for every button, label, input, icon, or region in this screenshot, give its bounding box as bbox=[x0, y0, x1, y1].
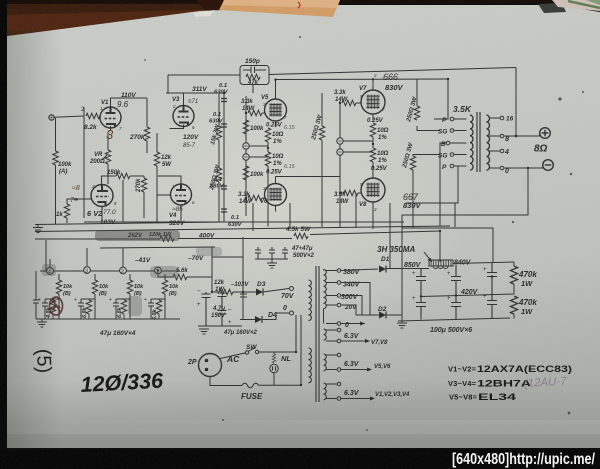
wire left outer vertical bbox=[83, 107, 85, 218]
resistor 250ohm 3W left bbox=[209, 163, 222, 222]
svg-text:470k: 470k bbox=[518, 270, 537, 279]
tube V3 bbox=[172, 97, 194, 127]
capacitor 0.1 630V no.3 bbox=[210, 177, 227, 190]
wire psu ground vertical bbox=[401, 226, 403, 321]
svg-text:0.25V: 0.25V bbox=[266, 170, 283, 176]
svg-text:500V×2: 500V×2 bbox=[293, 253, 315, 259]
heater winding 2 bbox=[324, 354, 327, 371]
svg-text:10Ω: 10Ω bbox=[272, 154, 284, 160]
capacitor 47u 160Vx2 lower bbox=[218, 307, 258, 336]
wire x224 coupling rail bbox=[223, 93, 225, 222]
svg-text:3: 3 bbox=[106, 127, 114, 142]
svg-text:+: + bbox=[144, 297, 147, 303]
wire 8 tap to plus terminal bbox=[504, 134, 540, 136]
svg-text:6 V2: 6 V2 bbox=[87, 209, 103, 218]
wire bias feed left bbox=[45, 240, 47, 271]
wire mid vertical x168 bbox=[167, 75, 169, 93]
capacitor 47+47u bank bbox=[255, 246, 315, 259]
tube V4 bbox=[169, 184, 192, 227]
svg-text:47μ 160V×4: 47μ 160V×4 bbox=[99, 330, 136, 337]
svg-text:47μ 160V×2: 47μ 160V×2 bbox=[223, 330, 257, 336]
smudge near 5.6k bbox=[150, 266, 178, 278]
svg-text:850V: 850V bbox=[404, 262, 422, 269]
heater winding 3 bbox=[324, 383, 327, 400]
node P2 tap bbox=[442, 164, 467, 171]
wire AC top cont bbox=[259, 315, 296, 352]
bottom black band bbox=[0, 448, 600, 469]
primary winding bbox=[470, 115, 473, 170]
resistor 470k 1W upper bbox=[510, 262, 537, 294]
svg-text:V7: V7 bbox=[359, 86, 367, 92]
paper specks bbox=[144, 36, 584, 431]
paper bottom shading bbox=[0, 432, 600, 450]
node tap 340V bbox=[326, 281, 361, 289]
diode D1 bbox=[379, 256, 429, 273]
svg-text:V3: V3 bbox=[172, 97, 180, 103]
ground caps bank bbox=[267, 259, 277, 268]
smudge over 120k row bbox=[95, 230, 180, 241]
node B tap bbox=[441, 141, 467, 148]
node 8 tap bbox=[489, 134, 510, 143]
svg-text:200Ω: 200Ω bbox=[89, 159, 105, 165]
terminal minus bbox=[543, 160, 554, 171]
node tap 20V bbox=[326, 303, 357, 311]
svg-text:0.25V: 0.25V bbox=[266, 123, 283, 129]
svg-text:10k: 10k bbox=[169, 284, 179, 290]
resistor 150k bbox=[107, 170, 144, 179]
node SG2 tap bbox=[438, 153, 467, 160]
resistor 100k upper bbox=[243, 120, 264, 134]
node 4 tap bbox=[489, 149, 509, 156]
svg-text:[640x480]http://upic.me/: [640x480]http://upic.me/ bbox=[452, 451, 596, 468]
wire V1 cathode bbox=[108, 126, 111, 132]
terminal plus bbox=[540, 128, 551, 139]
resistor 250ohm 3W screen V8 bbox=[402, 141, 440, 203]
resistor 3.3k 14W V6 grid bbox=[238, 192, 265, 205]
tube V5 EL34 bbox=[261, 93, 287, 127]
tube V7 EL34 bbox=[359, 80, 385, 121]
svg-text:3H 350MA: 3H 350MA bbox=[377, 245, 415, 254]
svg-text:2: 2 bbox=[172, 104, 176, 109]
wire upper ground rail bbox=[84, 221, 404, 223]
svg-text:10Ω: 10Ω bbox=[377, 151, 389, 157]
paper under-edge light rim bbox=[193, 10, 215, 17]
svg-text:+: + bbox=[412, 271, 416, 277]
secondary winding bbox=[487, 115, 490, 170]
svg-text:4.5k 5W: 4.5k 5W bbox=[285, 226, 311, 233]
wire P2 tap route bbox=[406, 166, 458, 203]
svg-text:0.25V: 0.25V bbox=[367, 118, 384, 124]
svg-text:(B): (B) bbox=[169, 291, 177, 297]
resistor 10ohm 1% upper bbox=[265, 128, 283, 152]
svg-text:8Ω: 8Ω bbox=[534, 144, 548, 155]
resistor 3.3k 14W V7 grid bbox=[334, 90, 361, 106]
capacitor far left bias bbox=[33, 271, 39, 319]
svg-text:667: 667 bbox=[403, 192, 419, 202]
svg-text:(B): (B) bbox=[99, 291, 107, 297]
svg-text:10k: 10k bbox=[63, 284, 73, 290]
node NFB circle a bbox=[243, 143, 268, 149]
node NFB circle d bbox=[337, 149, 373, 155]
svg-text:6.15: 6.15 bbox=[284, 125, 296, 131]
wire bias bus with nodes bbox=[40, 270, 180, 272]
switch SW bbox=[245, 344, 258, 354]
svg-text:1%: 1% bbox=[378, 135, 387, 141]
wire psu ground bus bbox=[398, 318, 510, 321]
neon lamp NL bbox=[270, 352, 292, 386]
wire AC bottom bbox=[210, 377, 242, 386]
svg-text:0.1: 0.1 bbox=[231, 215, 239, 221]
power transformer HV secondary bbox=[324, 270, 327, 309]
svg-text:NL: NL bbox=[281, 354, 291, 363]
svg-text:0: 0 bbox=[283, 305, 287, 312]
resistor 8.2k bbox=[86, 113, 100, 118]
wire V2 plate top bbox=[102, 176, 109, 184]
svg-text:V5,V6: V5,V6 bbox=[374, 364, 391, 370]
tube V8 EL34 bbox=[359, 176, 385, 208]
diode D3 bbox=[243, 281, 295, 300]
resistor 15k 3W bbox=[210, 93, 222, 168]
power transformer primary winding upper bbox=[309, 280, 312, 321]
bias cell 4 bbox=[144, 274, 179, 320]
wire 380V to D1 bbox=[341, 269, 378, 271]
capacitor 4.7u 150V bbox=[197, 288, 226, 326]
svg-text:V1~V2=: V1~V2= bbox=[448, 365, 477, 374]
svg-text:P: P bbox=[442, 117, 447, 124]
svg-text:3.3k: 3.3k bbox=[241, 99, 253, 105]
smudge left column bbox=[128, 296, 142, 316]
svg-text:≈8: ≈8 bbox=[72, 185, 80, 192]
capacitor 47u 160Vx2 upper bbox=[218, 289, 233, 309]
pink note top right bbox=[552, 0, 600, 11]
svg-text:630V: 630V bbox=[228, 222, 243, 228]
svg-text:311V: 311V bbox=[192, 86, 207, 93]
svg-text:0.1: 0.1 bbox=[213, 112, 221, 118]
svg-text:+: + bbox=[228, 320, 232, 326]
svg-text:(B): (B) bbox=[63, 291, 71, 297]
resistor 270k bbox=[129, 98, 150, 153]
smudge near caps bank bbox=[196, 247, 222, 256]
resistor 3.3k 14W V5 grid bbox=[241, 99, 265, 116]
pin number digits bbox=[92, 73, 385, 212]
svg-text:V7,V8: V7,V8 bbox=[371, 340, 388, 346]
resistor 12k 5W bbox=[154, 133, 172, 222]
svg-text:–103V: –103V bbox=[231, 282, 249, 288]
svg-text:VR: VR bbox=[94, 152, 103, 158]
svg-text:3.5K: 3.5K bbox=[453, 104, 472, 114]
resistor 12k 1W bias supply bbox=[212, 280, 243, 295]
capacitor 0.1 630V no.4 bbox=[221, 209, 243, 228]
wire B tap down to PSU bbox=[440, 143, 447, 226]
svg-text:10Ω: 10Ω bbox=[377, 128, 389, 134]
resistor 10ohm 1% V8 bbox=[370, 148, 388, 176]
node NFB circle c bbox=[337, 138, 373, 144]
svg-text:150p: 150p bbox=[245, 58, 260, 65]
node input jack bbox=[49, 115, 54, 120]
svg-text:6.8k: 6.8k bbox=[117, 306, 123, 318]
svg-text:1W: 1W bbox=[521, 279, 533, 288]
output transformer 3.5K bbox=[453, 104, 490, 172]
power transformer primary winding lower bbox=[309, 348, 312, 383]
capacitor 0.1 630V no.1 bbox=[214, 83, 229, 102]
svg-text:4: 4 bbox=[504, 149, 509, 156]
ground left bbox=[33, 225, 43, 233]
node SG1 tap bbox=[438, 129, 467, 136]
wire risers between amp and rails bbox=[253, 183, 455, 268]
resistor 100k (A) bbox=[53, 118, 72, 224]
svg-text:1%: 1% bbox=[273, 161, 282, 167]
diode D4 bbox=[240, 305, 294, 323]
svg-text:1%: 1% bbox=[378, 158, 387, 164]
potentiometer VR 200 bbox=[89, 132, 111, 184]
wire ground return right bbox=[402, 168, 528, 226]
svg-text:≡71: ≡71 bbox=[188, 99, 198, 105]
svg-text:830V: 830V bbox=[385, 83, 404, 92]
svg-text:12k: 12k bbox=[214, 280, 225, 286]
resistor 5.6k bias bbox=[158, 268, 212, 280]
left black strip bbox=[0, 0, 7, 469]
wire input stub bbox=[54, 116, 84, 117]
wire 0 tap to minus terminal bbox=[504, 167, 543, 168]
svg-text:0.25V: 0.25V bbox=[371, 166, 388, 172]
svg-text:1%: 1% bbox=[273, 139, 282, 145]
svg-text:6.3V: 6.3V bbox=[344, 361, 360, 368]
svg-text:6.8k: 6.8k bbox=[82, 306, 88, 318]
wire feedback rail top bbox=[168, 68, 516, 76]
ground D2 bbox=[397, 315, 407, 328]
svg-text:4.7μ: 4.7μ bbox=[212, 306, 225, 312]
svg-text:D1: D1 bbox=[381, 256, 390, 263]
resistor 120k 1W bbox=[127, 232, 174, 241]
node tap 380V bbox=[326, 269, 361, 276]
node circle 3 bbox=[84, 267, 91, 275]
ground bias bus bbox=[37, 319, 47, 327]
svg-text:630V: 630V bbox=[214, 90, 229, 96]
watermark bbox=[452, 451, 596, 468]
svg-text:666: 666 bbox=[383, 72, 398, 82]
wire AC top bbox=[220, 353, 245, 359]
svg-text:+: + bbox=[74, 297, 77, 303]
svg-text:470k: 470k bbox=[518, 298, 537, 307]
wire V3 cathode down bbox=[170, 125, 184, 129]
node 16 tap bbox=[489, 116, 514, 123]
filter cap col2 bbox=[447, 265, 461, 319]
svg-text:7≡: 7≡ bbox=[70, 197, 78, 204]
wire 311V rail bbox=[166, 92, 224, 94]
heater winding 1 bbox=[324, 329, 327, 340]
svg-text:8.2k: 8.2k bbox=[84, 124, 97, 131]
svg-text:47+47μ: 47+47μ bbox=[291, 246, 313, 252]
wire long rail R1 bbox=[35, 226, 450, 232]
svg-text:V4: V4 bbox=[169, 213, 177, 219]
dark smudge top right bbox=[538, 3, 566, 13]
wire 0 tap arrow bbox=[341, 323, 365, 325]
tube V6 EL34 bbox=[260, 177, 287, 212]
core bbox=[477, 112, 480, 172]
wire V2 V4 bottoms bbox=[102, 205, 181, 223]
svg-text:85-7: 85-7 bbox=[183, 143, 196, 149]
resistor 10ohm 1% V7 bbox=[370, 123, 388, 148]
wood desk top-left bbox=[0, 0, 236, 37]
resistor 270k second bbox=[136, 176, 147, 218]
node circle 1 bbox=[155, 267, 162, 275]
svg-text:SG: SG bbox=[438, 129, 447, 136]
wire x340 column bbox=[339, 101, 341, 176]
wire AC bottom cont bbox=[258, 315, 301, 385]
svg-text:270k: 270k bbox=[136, 178, 142, 193]
wire V4 grid left bbox=[157, 194, 171, 196]
svg-text:100μ 500V×6: 100μ 500V×6 bbox=[430, 327, 472, 334]
svg-text:+: + bbox=[412, 296, 416, 302]
svg-text:+: + bbox=[483, 267, 487, 273]
svg-text:77.0: 77.0 bbox=[103, 209, 116, 216]
wire V6 plate route bbox=[276, 177, 341, 204]
node NFB circle b bbox=[243, 154, 268, 160]
resistor 250ohm 3W screen V7 bbox=[406, 79, 440, 131]
wire bias feed vertical bbox=[212, 237, 243, 319]
tube list text bbox=[448, 364, 572, 402]
svg-text:V5: V5 bbox=[261, 95, 269, 101]
choke 3H 350MA bbox=[377, 245, 453, 269]
svg-text:9.6: 9.6 bbox=[117, 100, 129, 109]
resistor 250ohm 3W right column bbox=[311, 93, 325, 203]
filter cap col3 bbox=[483, 263, 497, 319]
svg-text:120V: 120V bbox=[183, 134, 199, 141]
bias cell 3 bbox=[109, 274, 144, 319]
svg-text:100k: 100k bbox=[250, 126, 264, 132]
diode D2 bbox=[356, 306, 402, 319]
svg-text:6.3V: 6.3V bbox=[344, 333, 360, 340]
svg-text:+: + bbox=[447, 296, 451, 302]
wire V3 plate to 311V rail bbox=[183, 93, 185, 105]
wire V1 plate rail bbox=[111, 98, 148, 107]
heater taps 6.3V no2 bbox=[326, 353, 391, 371]
svg-text:270k: 270k bbox=[129, 134, 145, 141]
svg-text:–70V: –70V bbox=[188, 255, 204, 262]
resistor 4.5k 5W bbox=[285, 226, 311, 239]
wire mid 420V rail bbox=[421, 294, 514, 297]
red writing on note bbox=[298, 2, 300, 8]
svg-text:V8: V8 bbox=[359, 202, 367, 208]
fuse bbox=[241, 383, 263, 401]
svg-text:B: B bbox=[441, 141, 446, 148]
svg-text:12k: 12k bbox=[161, 155, 172, 161]
svg-text:D3: D3 bbox=[257, 281, 266, 288]
svg-text:10k: 10k bbox=[134, 284, 144, 290]
svg-text:10Ω: 10Ω bbox=[272, 132, 284, 138]
handwriting bbox=[32, 72, 568, 397]
svg-text:–41V: –41V bbox=[135, 257, 151, 264]
wire feedback vertical right bbox=[515, 68, 517, 136]
wire bottom left bus bbox=[35, 222, 224, 225]
svg-text:10k: 10k bbox=[99, 284, 109, 290]
svg-text:6.15: 6.15 bbox=[284, 164, 296, 170]
power transformer core bbox=[316, 266, 319, 402]
resistor 470k 1W lower bbox=[510, 296, 537, 319]
svg-text:≈85: ≈85 bbox=[172, 206, 183, 213]
svg-text:+: + bbox=[197, 302, 201, 308]
ground bias supply bbox=[198, 326, 242, 334]
node circle 4 bbox=[47, 268, 54, 276]
bias cell 2 bbox=[74, 274, 109, 319]
svg-text:+: + bbox=[447, 271, 451, 277]
AC plug 2P bbox=[187, 354, 222, 377]
capacitor bias filter bbox=[240, 292, 247, 310]
svg-text:150k: 150k bbox=[107, 170, 121, 176]
labels bbox=[0, 0, 1, 1]
svg-text:2: 2 bbox=[121, 269, 124, 275]
wire right of V2 bbox=[122, 180, 124, 222]
wire V4 plate bbox=[158, 176, 181, 184]
capacitor 0.1 630V no.2 bbox=[209, 112, 227, 127]
wire bias ground bus bbox=[36, 318, 180, 320]
svg-text:14W: 14W bbox=[336, 199, 350, 205]
wire psu riser right bbox=[402, 228, 493, 263]
heater taps 6.3V no3 bbox=[326, 382, 410, 400]
feedback network 150p 47k bbox=[240, 58, 269, 93]
svg-text:3: 3 bbox=[85, 269, 88, 275]
svg-text:SW: SW bbox=[246, 344, 257, 351]
node tap 300V bbox=[326, 294, 359, 301]
scribble red-brown cell1 bbox=[50, 297, 63, 315]
svg-text:830V: 830V bbox=[403, 201, 422, 210]
wire long rail R2 bbox=[35, 231, 440, 239]
wire P1 tap from plate rail bbox=[434, 79, 448, 119]
svg-text:P: P bbox=[442, 164, 447, 171]
svg-text:3.3k: 3.3k bbox=[334, 90, 346, 96]
svg-text:SG: SG bbox=[438, 153, 447, 160]
svg-text:6.8k: 6.8k bbox=[152, 308, 158, 320]
wire bias rail bbox=[100, 247, 215, 248]
svg-text:320V: 320V bbox=[169, 220, 185, 227]
svg-text:12AX7A(ECC83): 12AX7A(ECC83) bbox=[477, 364, 572, 374]
smudge near node1 bbox=[42, 264, 56, 276]
bias cell 1 bbox=[38, 274, 73, 319]
resistor 10ohm 1% lower bbox=[265, 152, 283, 183]
svg-text:70V: 70V bbox=[281, 293, 295, 300]
node tap 0 bbox=[326, 322, 349, 329]
node 0 tap bbox=[489, 166, 509, 175]
wire node stubs up bbox=[50, 248, 123, 267]
svg-text:1W: 1W bbox=[521, 307, 533, 316]
svg-text:2P: 2P bbox=[187, 359, 197, 366]
resistor 100k lower bbox=[243, 166, 264, 180]
tube V1 bbox=[100, 100, 121, 128]
svg-text:100k: 100k bbox=[250, 172, 264, 178]
wire x246 grid column bbox=[245, 96, 247, 216]
node circle 2 bbox=[120, 267, 127, 275]
svg-text:16: 16 bbox=[506, 116, 514, 123]
wire main B+ rail bbox=[453, 262, 514, 264]
orange sticky note bbox=[219, 0, 340, 17]
heater taps 6.3V no1 bbox=[326, 328, 388, 346]
svg-text:400V: 400V bbox=[198, 233, 215, 240]
wire driver plate rail y79 bbox=[276, 79, 449, 93]
svg-text:0: 0 bbox=[505, 168, 509, 175]
wire HV taps to D2 bbox=[341, 283, 370, 316]
svg-text:630V: 630V bbox=[209, 119, 224, 125]
svg-text:5W: 5W bbox=[162, 162, 172, 168]
green corner line bbox=[568, 1, 600, 8]
filter cap col1 bbox=[412, 269, 426, 320]
node P1 tap bbox=[442, 117, 467, 124]
tube V2 bbox=[87, 184, 116, 226]
wire B to first filter node bbox=[439, 231, 441, 262]
svg-text:0.1: 0.1 bbox=[219, 83, 227, 89]
resistor 1k bbox=[56, 199, 91, 223]
resistor 3.3k 14W V8 grid bbox=[334, 190, 361, 205]
svg-text:+: + bbox=[109, 297, 112, 303]
